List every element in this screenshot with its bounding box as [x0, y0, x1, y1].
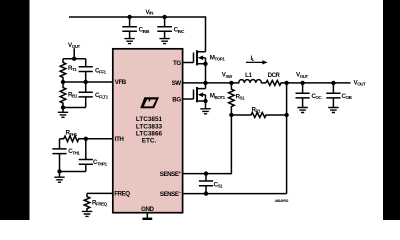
wire SENSE- — [183, 193, 287, 195]
ground RFREQ — [82, 211, 92, 216]
inductor L1 — [231, 80, 266, 83]
node SW/M junction — [203, 81, 207, 85]
wire SENSE+ — [183, 115, 231, 174]
resistor RT1 — [60, 59, 66, 82]
svg-text:TG: TG — [173, 60, 181, 67]
svg-text:L1: L1 — [245, 72, 252, 79]
capacitor CS1 — [199, 174, 213, 194]
node CS1 top — [204, 171, 208, 175]
node divider gnd — [61, 105, 65, 109]
node RP1 left — [229, 113, 233, 117]
wire divider bottom rail — [63, 107, 86, 109]
capacitor CFLT1 — [79, 82, 93, 108]
node CS1 bottom — [204, 191, 208, 195]
resistor RB1 — [60, 82, 66, 108]
arrow IL — [246, 60, 268, 64]
svg-text:SENSE+: SENSE+ — [160, 170, 182, 178]
capacitor CTH1 — [52, 139, 66, 172]
node VIN junction C_INC — [162, 15, 166, 19]
svg-text:VFB: VFB — [115, 79, 127, 86]
wire SW line — [183, 82, 231, 84]
svg-text:FREQ: FREQ — [114, 191, 130, 198]
node VFB rail right — [84, 80, 88, 84]
capacitor CTHP1 — [79, 139, 93, 172]
svg-text:AN149 F02: AN149 F02 — [275, 199, 289, 203]
resistor RTH1 / wire ITH — [60, 136, 113, 142]
resistor RFREQ — [84, 193, 90, 211]
node VOUT stub — [72, 57, 76, 61]
node COB junction — [331, 81, 335, 85]
transistor M_TOP1 — [183, 50, 208, 83]
svg-text:DCR: DCR — [268, 73, 281, 79]
IC U1 LTC3851 box — [113, 49, 183, 213]
wire VOUT to RP1/SENSE- vertical — [286, 83, 288, 194]
wire VOUT left stub — [73, 48, 75, 59]
node VIN junction C_INB — [127, 15, 131, 19]
capacitor CINB — [122, 17, 137, 44]
ground GND pin — [142, 218, 152, 220]
svg-text:SW: SW — [172, 80, 182, 87]
svg-text:BG: BG — [172, 96, 181, 103]
resistor RP1 — [231, 113, 286, 118]
resistor RS1 — [229, 83, 235, 115]
svg-text:LTC3866: LTC3866 — [136, 130, 163, 137]
node ITH junction — [84, 137, 88, 141]
wire ITH bottom rail — [60, 171, 86, 173]
svg-text:ETC.: ETC. — [142, 137, 157, 144]
ground divider — [58, 108, 68, 118]
capacitor COB — [326, 83, 340, 113]
capacitor COC — [296, 83, 310, 113]
transistor M_BOT1 — [183, 83, 208, 106]
svg-text:GND: GND — [141, 206, 154, 213]
node VFB rail left — [61, 80, 65, 84]
LT logo — [140, 97, 159, 108]
wire divider top rail — [63, 58, 86, 60]
wire FREQ — [87, 192, 113, 194]
node COC junction — [300, 81, 304, 85]
wire VIN rail — [69, 17, 206, 52]
capacitor CFF1 — [79, 59, 93, 82]
svg-text:LTC3833: LTC3833 — [136, 123, 163, 130]
node VSW junction — [229, 81, 233, 85]
svg-text:LTC3851: LTC3851 — [136, 116, 163, 123]
node ITH gnd — [57, 169, 61, 173]
wire VFB rail — [63, 81, 113, 83]
wire VOUT line — [287, 82, 351, 84]
wire GND stub — [146, 214, 148, 219]
resistor DCR — [266, 80, 287, 85]
ground ITH network — [54, 172, 64, 183]
capacitor CINC — [157, 17, 172, 44]
svg-text:ITH: ITH — [115, 136, 125, 143]
node VOUT-DCR junction — [284, 81, 288, 85]
ground M_BOT1 — [205, 106, 207, 109]
svg-text:SENSE−: SENSE− — [160, 190, 182, 198]
node RP1 right — [284, 113, 288, 117]
